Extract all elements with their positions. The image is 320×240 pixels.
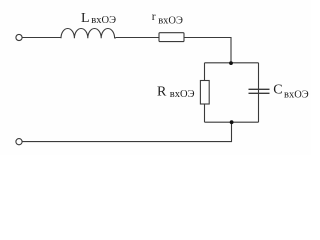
wire: top rail of parallel RC [205,62,259,64]
wire: resistor r to top-right corner, down to node A [184,38,231,63]
svg-text:L: L [81,11,90,26]
node A (top junction dot) [229,61,233,65]
wire: top terminal to inductor [22,37,61,39]
inductor L_vhOE [61,28,115,38]
svg-text:вхОЭ: вхОЭ [158,15,183,26]
svg-text:C: C [273,83,282,98]
svg-text:вхОЭ: вхОЭ [91,15,116,26]
capacitor C_vhOE plates [249,89,270,93]
wire: bottom return from node B to bottom terminal [22,122,231,141]
wire: left branch lower segment [204,104,206,122]
wire: right branch through capacitor [258,63,260,122]
svg-text:R: R [157,85,167,100]
svg-text:r: r [152,11,156,23]
wire: bottom rail of parallel RC [205,121,259,123]
wire: left branch upper segment [204,63,206,81]
terminal bottom-left [16,139,22,145]
node B (bottom junction dot) [230,120,234,124]
svg-text:вхОЭ: вхОЭ [284,90,309,101]
svg-text:вхОЭ: вхОЭ [170,89,195,100]
resistor R_vhOE [200,81,209,105]
terminal top-left [16,34,22,40]
wire: inductor to resistor r [115,37,159,40]
resistor r_vhOE [159,33,184,42]
